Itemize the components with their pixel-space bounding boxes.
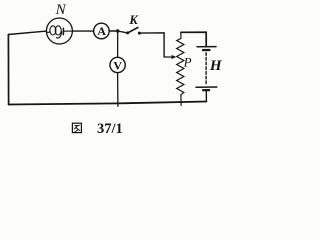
- wire voltmeter to bottom wire: [117, 73, 119, 107]
- wiper arrow: [164, 55, 176, 59]
- wire bottom: [9, 102, 207, 105]
- voltmeter V: [110, 57, 125, 72]
- wire lamp to ammeter: [72, 30, 93, 32]
- svg-text:N: N: [55, 2, 67, 18]
- node junction: [116, 29, 119, 32]
- wire battery bottom lead: [205, 90, 207, 101]
- svg-text:P: P: [183, 55, 192, 70]
- rheostat P: [177, 32, 184, 105]
- svg-text:A: A: [97, 24, 106, 38]
- wire top-left horizontal: [8, 31, 46, 34]
- svg-text:37/1: 37/1: [97, 121, 123, 137]
- wire junction to switch pivot: [118, 31, 128, 33]
- ammeter A: [94, 23, 110, 39]
- svg-text:H: H: [209, 58, 223, 74]
- wire ammeter to junction: [109, 30, 118, 32]
- lamp N: [46, 18, 72, 44]
- battery H: [196, 47, 217, 91]
- caption 图 (drawn glyph): [72, 123, 81, 132]
- wire left vertical: [7, 35, 9, 105]
- wire junction down to voltmeter: [117, 31, 119, 57]
- switch K: [126, 28, 141, 35]
- wire switch to wiper corner: [139, 33, 164, 57]
- wire rheostat top to battery top: [181, 32, 206, 46]
- svg-text:V: V: [113, 58, 122, 72]
